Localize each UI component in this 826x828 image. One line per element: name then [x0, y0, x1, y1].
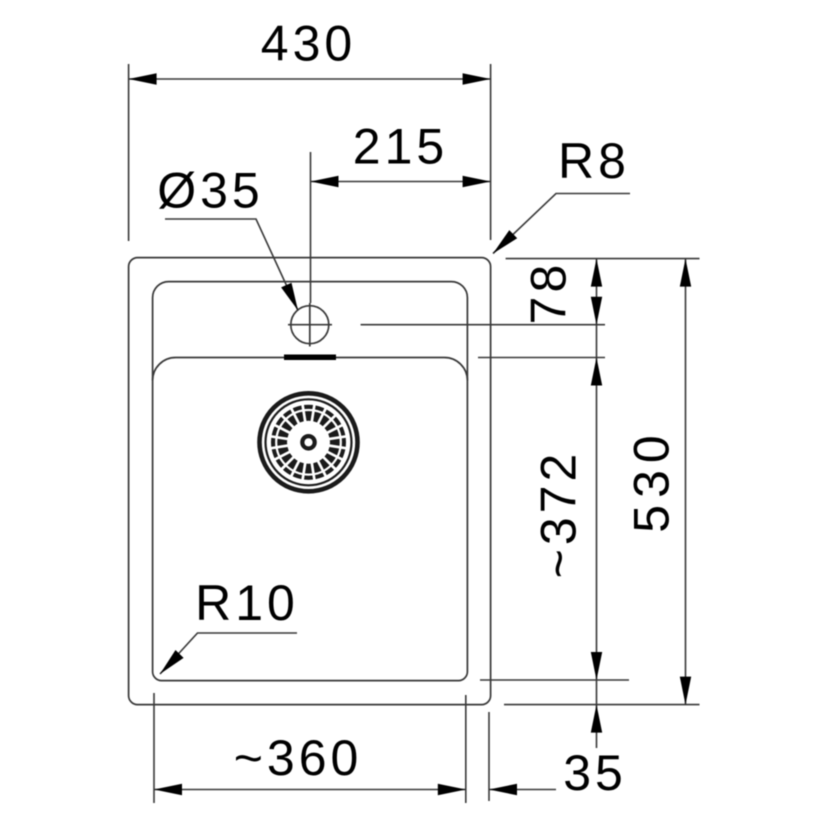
svg-text:78: 78: [521, 261, 577, 325]
svg-text:R10: R10: [195, 575, 299, 631]
svg-text:~360: ~360: [234, 730, 363, 786]
svg-text:Ø35: Ø35: [157, 163, 264, 219]
svg-text:430: 430: [261, 16, 356, 72]
svg-text:530: 530: [624, 428, 680, 532]
svg-text:215: 215: [353, 119, 448, 175]
svg-text:R8: R8: [558, 133, 630, 189]
svg-text:~372: ~372: [531, 450, 587, 579]
svg-text:35: 35: [563, 745, 627, 801]
